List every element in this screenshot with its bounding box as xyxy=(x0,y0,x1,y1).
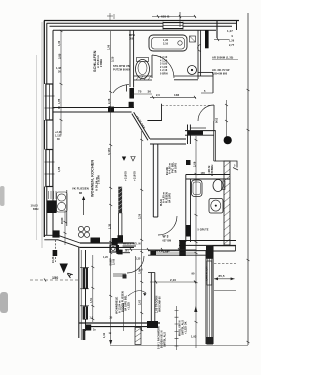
svg-text:A 4,95 m: A 4,95 m xyxy=(163,191,166,203)
svg-text:2,26: 2,26 xyxy=(139,213,142,219)
svg-text:8B: 8B xyxy=(79,192,82,195)
svg-text:1,47: 1,47 xyxy=(227,29,233,33)
svg-text:2,10: 2,10 xyxy=(163,250,169,253)
svg-text:A 4,50 m: A 4,50 m xyxy=(169,162,172,174)
svg-text:1,01: 1,01 xyxy=(139,268,142,274)
svg-text:36: 36 xyxy=(148,90,152,94)
svg-text:SUMP: SUMP xyxy=(110,258,113,266)
svg-text:0,85×0M 980: 0,85×0M 980 xyxy=(212,73,228,76)
svg-text:10,36: 10,36 xyxy=(52,256,55,263)
svg-text:165: 165 xyxy=(201,172,206,175)
svg-text:3,0 B: 3,0 B xyxy=(113,259,116,265)
svg-text:BODEN 601 N: BODEN 601 N xyxy=(161,330,164,348)
svg-text:1,34: 1,34 xyxy=(103,332,106,338)
svg-text:W 3: W 3 xyxy=(163,235,169,239)
svg-text:+2,905: +2,905 xyxy=(133,171,137,181)
svg-text:WOHNDIELE: WOHNDIELE xyxy=(115,297,119,314)
svg-text:AR 3000M (1,35): AR 3000M (1,35) xyxy=(212,56,233,60)
svg-text:A 12,84 m: A 12,84 m xyxy=(119,300,122,313)
svg-text:1,38: 1,38 xyxy=(109,223,112,229)
svg-text:150: 150 xyxy=(52,276,58,280)
svg-text:+2,805: +2,805 xyxy=(124,171,128,181)
svg-text:2x: 2x xyxy=(93,329,96,332)
svg-text:2,0: 2,0 xyxy=(156,93,160,97)
svg-text:2,10: 2,10 xyxy=(170,278,176,282)
svg-text:PUTZM 80/60: PUTZM 80/60 xyxy=(113,69,130,72)
svg-text:101: 101 xyxy=(125,249,130,252)
svg-text:5 GRUTE: 5 GRUTE xyxy=(198,229,209,232)
svg-text:SMTBL ALS: SMTBL ALS xyxy=(182,320,185,335)
svg-text:2 BMH: 2 BMH xyxy=(100,59,103,67)
svg-text:PVC BEL: PVC BEL xyxy=(172,161,175,173)
svg-text:1,26: 1,26 xyxy=(103,257,108,259)
svg-text:FLIESEN: FLIESEN xyxy=(166,192,169,203)
svg-text:5 W 1 FACHWERK: 5 W 1 FACHWERK xyxy=(158,326,161,349)
svg-text:WASCHM 60: WASCHM 60 xyxy=(159,296,162,312)
svg-text:5: 5 xyxy=(234,165,236,168)
svg-text:100: 100 xyxy=(129,37,134,40)
svg-text:9: 9 xyxy=(232,35,234,38)
svg-text:2 B.MH: 2 B.MH xyxy=(98,175,101,184)
svg-text:126: 126 xyxy=(117,249,122,252)
svg-text:VA GIPS: VA GIPS xyxy=(175,163,178,173)
svg-text:FLUR: FLUR xyxy=(165,167,169,175)
svg-text:2,63: 2,63 xyxy=(139,299,142,305)
svg-text:637 BM: 637 BM xyxy=(163,241,172,243)
svg-text:136: 136 xyxy=(174,93,180,97)
svg-text:1,96: 1,96 xyxy=(107,44,110,50)
svg-text:+1,325: +1,325 xyxy=(128,301,131,310)
svg-text:BODEN FLIESEN: BODEN FLIESEN xyxy=(122,291,125,312)
svg-text:90/2: 90/2 xyxy=(216,117,219,123)
svg-text:0 BRH: 0 BRH xyxy=(160,73,168,76)
svg-text:2,16: 2,16 xyxy=(163,43,169,46)
svg-text:VA GIPS BEL: VA GIPS BEL xyxy=(125,295,128,311)
svg-text:1,35: 1,35 xyxy=(136,259,141,261)
svg-text:1,135: 1,135 xyxy=(55,135,62,138)
svg-text:85,5: 85,5 xyxy=(219,274,225,278)
svg-text:30: 30 xyxy=(57,138,60,141)
svg-text:1,85: 1,85 xyxy=(58,166,61,172)
svg-text:1,93: 1,93 xyxy=(191,335,197,339)
svg-text:BAD: BAD xyxy=(159,198,163,206)
svg-text:A: A xyxy=(64,270,75,280)
svg-text:+2,26: +2,26 xyxy=(55,131,62,134)
svg-text:1,05 TROCKN: 1,05 TROCKN xyxy=(156,296,159,313)
svg-text:90/60: 90/60 xyxy=(61,217,64,224)
svg-text:MAUL 600 N: MAUL 600 N xyxy=(179,320,182,336)
svg-text:WOHNEN, KOCHEN: WOHNEN, KOCHEN xyxy=(91,160,95,197)
svg-text:1,26: 1,26 xyxy=(229,40,235,43)
svg-text:655 B: 655 B xyxy=(161,15,170,19)
svg-text:BRH: BRH xyxy=(33,208,39,211)
svg-text:90: 90 xyxy=(192,272,196,276)
svg-text:3,85: 3,85 xyxy=(57,53,61,59)
svg-text:2,77: 2,77 xyxy=(229,44,235,47)
svg-text:5: 5 xyxy=(204,90,206,93)
svg-text:2,06: 2,06 xyxy=(192,161,196,167)
svg-text:2,463 M: 2,463 M xyxy=(208,166,211,175)
svg-text:3,135: 3,135 xyxy=(107,148,111,155)
svg-text:+1,325 OK: +1,325 OK xyxy=(185,321,188,334)
svg-text:WELLE MEL M: WELLE MEL M xyxy=(123,243,141,246)
svg-text:1,51: 1,51 xyxy=(90,297,93,303)
svg-text:VA GIPS: VA GIPS xyxy=(169,193,172,203)
svg-text:1,30: 1,30 xyxy=(58,40,61,46)
svg-text:75: 75 xyxy=(138,90,142,94)
svg-text:25: 25 xyxy=(110,317,113,320)
svg-text:12: 12 xyxy=(109,332,112,335)
svg-text:SCHLAFEN: SCHLAFEN xyxy=(93,50,97,72)
svg-text:1,35/BRH: 1,35/BRH xyxy=(211,165,214,176)
svg-text:VK FLIESEN: VK FLIESEN xyxy=(72,187,89,191)
svg-text:SMTBL ALS: SMTBL ALS xyxy=(164,332,167,347)
svg-text:2,26: 2,26 xyxy=(107,98,111,104)
svg-text:1,85: 1,85 xyxy=(58,98,61,104)
svg-text:30: 30 xyxy=(58,106,61,109)
svg-text:1,0: 1,0 xyxy=(90,317,94,320)
